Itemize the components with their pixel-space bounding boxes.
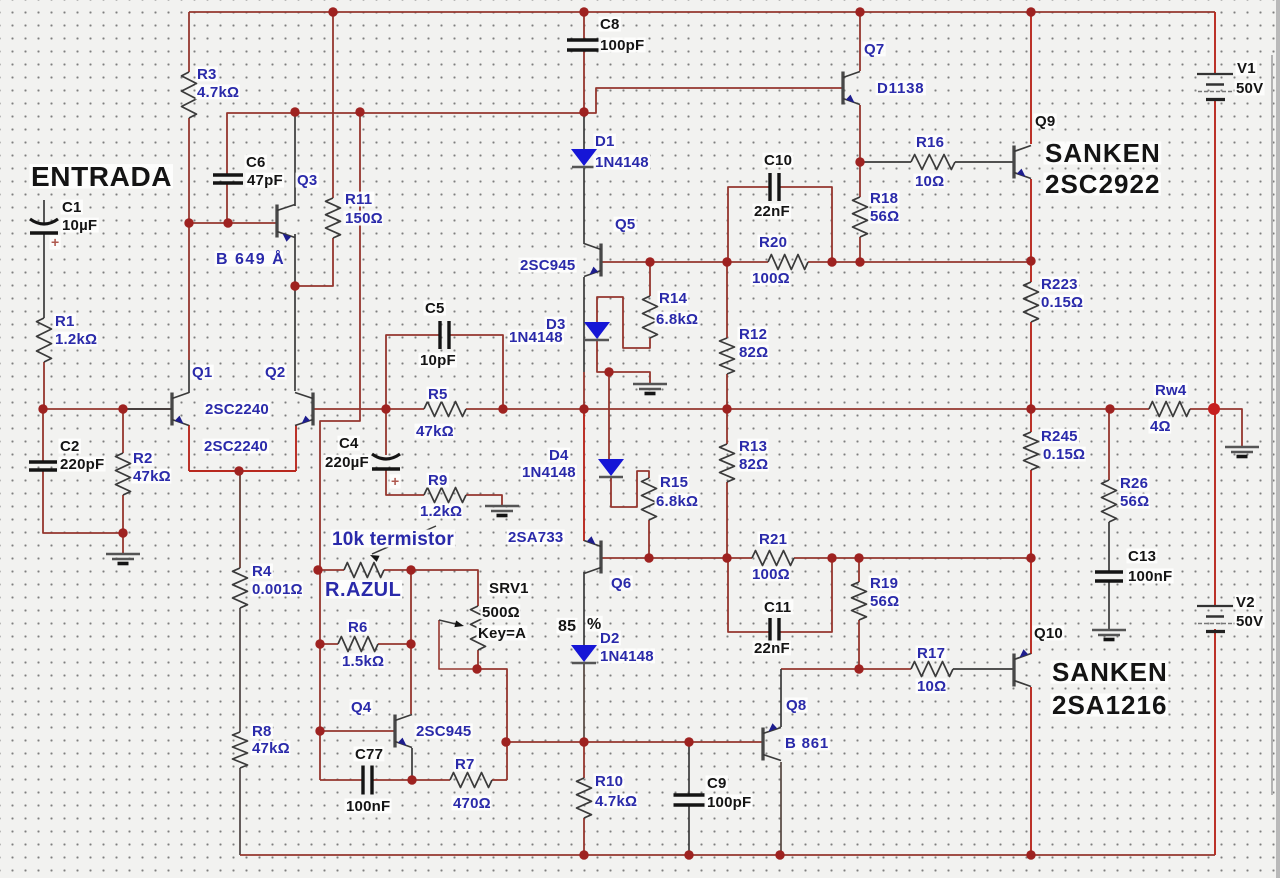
junction (860,12) xyxy=(855,7,864,16)
svg-text:2SA733: 2SA733 xyxy=(508,529,563,546)
wire R4 top stub xyxy=(239,471,241,568)
label SRV1 percent sign xyxy=(586,616,603,633)
svg-text:1.2kΩ: 1.2kΩ xyxy=(420,503,462,520)
label R13 ref xyxy=(738,438,769,455)
svg-text:2SC2240: 2SC2240 xyxy=(205,401,269,418)
wire R14 bottom to D3 anode xyxy=(597,297,650,348)
wire diff pair emitter bus xyxy=(189,470,296,472)
svg-text:C5: C5 xyxy=(425,300,445,317)
label R223 ref xyxy=(1040,276,1080,293)
junction (320,644) xyxy=(315,639,324,648)
svg-text:10Ω: 10Ω xyxy=(915,173,944,190)
svg-text:4.7kΩ: 4.7kΩ xyxy=(595,793,637,810)
wire C8 top stub xyxy=(583,12,585,40)
wire top +V rail xyxy=(189,11,1215,13)
junction (780,855) xyxy=(775,850,784,859)
label C10 value xyxy=(753,203,792,220)
wire D1 cathode to Q5 collector xyxy=(583,166,585,244)
wire C10 loop right xyxy=(779,187,832,262)
label R15 value xyxy=(655,493,699,510)
svg-text:Q1: Q1 xyxy=(192,364,212,381)
label R5 ref xyxy=(427,386,449,403)
svg-text:C10: C10 xyxy=(764,152,792,169)
wire R10 top stub xyxy=(583,742,585,778)
svg-text:56Ω: 56Ω xyxy=(870,208,899,225)
svg-text:R4: R4 xyxy=(252,563,272,580)
wire C2 top stub xyxy=(42,409,44,462)
svg-text:V2: V2 xyxy=(1236,594,1255,611)
svg-text:56Ω: 56Ω xyxy=(1120,493,1149,510)
wire C4 top stub xyxy=(385,409,387,455)
svg-text:R12: R12 xyxy=(739,326,767,343)
junction (295,286) xyxy=(290,281,299,290)
svg-text:47kΩ: 47kΩ xyxy=(252,740,290,757)
label R10 ref xyxy=(594,773,625,790)
wire R13 bottom stub xyxy=(726,482,728,558)
junction (123,409) xyxy=(118,404,127,413)
label Q8 ref xyxy=(785,697,808,714)
label C11 value xyxy=(753,640,792,657)
label Q6 value xyxy=(507,529,565,546)
wire Q1 collector up xyxy=(188,223,190,393)
svg-text:R.AZUL: R.AZUL xyxy=(325,579,401,601)
label R16 value xyxy=(914,173,945,190)
resistor R12 xyxy=(720,338,735,374)
svg-text:Q4: Q4 xyxy=(351,699,372,716)
label C5 value xyxy=(419,352,458,369)
label C8 value xyxy=(599,37,646,54)
resistor R4 xyxy=(233,568,248,608)
junction (333,12) xyxy=(328,7,337,16)
resistor R14 xyxy=(643,296,658,338)
svg-text:47kΩ: 47kΩ xyxy=(133,468,171,485)
svg-text:+: + xyxy=(51,234,59,250)
wire D1 anode stub xyxy=(583,112,585,149)
label Q10 part 2SA1216 xyxy=(1051,690,1168,720)
junction (584,12) xyxy=(579,7,588,16)
label C4 polarity xyxy=(390,473,401,489)
svg-text:R2: R2 xyxy=(133,450,153,467)
wire R4 to R8 xyxy=(239,608,241,732)
label C1 value xyxy=(61,217,99,234)
svg-text:Q6: Q6 xyxy=(611,575,631,592)
resistor R8 xyxy=(233,732,248,768)
label SRV1 ref xyxy=(488,580,531,597)
svg-text:R11: R11 xyxy=(345,191,372,208)
junction (832,262) xyxy=(827,257,836,266)
svg-text:C6: C6 xyxy=(246,154,266,171)
label R21 ref xyxy=(758,531,789,548)
svg-text:470Ω: 470Ω xyxy=(453,795,491,812)
resistor R16 xyxy=(911,155,955,170)
resistor R223 xyxy=(1024,282,1039,322)
svg-text:R8: R8 xyxy=(252,723,272,740)
svg-text:Q9: Q9 xyxy=(1035,113,1055,130)
svg-text:56Ω: 56Ω xyxy=(870,593,899,610)
resistor R11 xyxy=(326,198,341,238)
wire D2 cathode down xyxy=(583,663,585,742)
svg-text:C4: C4 xyxy=(339,435,359,452)
label C11 ref xyxy=(763,599,794,616)
label D2 value xyxy=(599,648,656,665)
svg-text:0.001Ω: 0.001Ω xyxy=(252,581,303,598)
label ENTRADA xyxy=(30,161,174,192)
svg-text:R18: R18 xyxy=(870,190,898,207)
wire C8 bottom to node xyxy=(583,50,585,112)
label SRV1 key xyxy=(477,625,528,642)
resistor R10 xyxy=(577,778,592,818)
label R15 ref xyxy=(659,474,690,491)
wire R17 right to Q10 base xyxy=(953,668,1014,670)
label C1 polarity xyxy=(50,234,61,250)
svg-text:82Ω: 82Ω xyxy=(739,344,768,361)
junction (318,570) xyxy=(313,565,322,574)
diode D4 xyxy=(598,459,624,477)
junction (411,644) xyxy=(406,639,415,648)
svg-text:Q2: Q2 xyxy=(265,364,285,381)
wire C2 bottom loop xyxy=(43,470,123,533)
svg-text:100pF: 100pF xyxy=(600,37,644,54)
wire R19 top stub xyxy=(858,558,860,582)
svg-text:R19: R19 xyxy=(870,575,898,592)
wire main row down to Q6 emitter xyxy=(583,409,585,541)
wire R18 top stub xyxy=(859,162,861,197)
label D4 ref xyxy=(548,447,570,464)
wire C9 top stub xyxy=(688,742,690,795)
label Q7 ref xyxy=(863,41,886,58)
label Rw4 value xyxy=(1149,418,1172,435)
label V2 value xyxy=(1235,613,1265,630)
label R4 ref xyxy=(251,563,273,580)
junction (1031,855) xyxy=(1026,850,1035,859)
svg-text:SRV1: SRV1 xyxy=(489,580,529,597)
wire Q1 emitter down xyxy=(188,425,190,471)
label SRV1 percent 85 xyxy=(557,618,578,635)
wire Q7 collector stub xyxy=(859,12,861,71)
capacitor C5 xyxy=(440,321,449,349)
svg-text:85: 85 xyxy=(558,618,576,635)
ground bias center xyxy=(633,384,667,394)
thermistor R.AZUL xyxy=(344,526,436,578)
wire main row to R223 xyxy=(1030,261,1032,282)
wire main row right of Rw4 xyxy=(1190,408,1214,410)
label R3 value xyxy=(196,84,240,101)
wire lower driver row (Q6 base) xyxy=(601,557,752,559)
label C77 ref xyxy=(354,746,385,763)
wire R3 bottom to Q3 base row xyxy=(188,118,190,223)
resistor Rw4 xyxy=(1149,402,1190,417)
wire C77 to R7 xyxy=(372,779,450,781)
transistor Q5 xyxy=(584,244,601,277)
label R10 value xyxy=(594,793,638,810)
wire Q3 emitter node down to Q2 collector xyxy=(294,234,296,391)
label Q3 ref xyxy=(296,172,319,189)
label C13 value xyxy=(1127,568,1174,585)
wire R7 right leg xyxy=(506,742,508,780)
label R4 value xyxy=(251,581,304,598)
wire C5 loop right xyxy=(449,335,503,409)
svg-text:1N4148: 1N4148 xyxy=(600,648,654,665)
junction (1031,558) xyxy=(1026,553,1035,562)
wire V1 top from rail xyxy=(1214,12,1216,74)
wire C5 loop left xyxy=(386,335,440,409)
resistor R245 xyxy=(1024,432,1039,470)
svg-text:R9: R9 xyxy=(428,472,448,489)
wire R245 bottom to lower row xyxy=(1030,470,1032,558)
capacitor C77 xyxy=(363,766,372,795)
label C9 ref xyxy=(706,775,728,792)
capacitor C6 xyxy=(213,175,243,183)
resistor R21 xyxy=(752,551,794,566)
wire main output row xyxy=(44,408,172,410)
svg-text:R17: R17 xyxy=(917,645,945,662)
svg-text:Q10: Q10 xyxy=(1034,625,1063,642)
wire vertical R6/thermistor/Q4-collector xyxy=(410,570,412,714)
label C6 value xyxy=(246,172,285,189)
wire SRV1 wiper xyxy=(439,620,477,669)
transistor Q3 xyxy=(277,205,295,242)
junction (1031,261) xyxy=(1026,256,1035,265)
wire C13 to ground xyxy=(1108,581,1110,630)
wire R6 row right xyxy=(378,643,411,645)
svg-text:47kΩ: 47kΩ xyxy=(416,423,454,440)
resistor R6 xyxy=(338,637,378,652)
resistor R19 xyxy=(852,582,867,620)
svg-text:2SA1216: 2SA1216 xyxy=(1052,690,1167,720)
svg-text:SANKEN: SANKEN xyxy=(1045,138,1161,168)
label R20 value xyxy=(751,270,791,287)
wire R18 bottom stub xyxy=(859,237,861,262)
svg-text:C8: C8 xyxy=(600,16,620,33)
resistor R2 xyxy=(116,453,131,495)
label thermistor note xyxy=(331,529,456,550)
junction (411,570) xyxy=(406,565,415,574)
junction (860,162) xyxy=(855,157,864,166)
svg-text:100nF: 100nF xyxy=(346,798,390,815)
wire Q4 emitter down xyxy=(411,748,413,780)
svg-text:R13: R13 xyxy=(739,438,767,455)
wire R10 bottom stub xyxy=(583,818,585,855)
label R5 value xyxy=(415,423,455,440)
capacitor C2 xyxy=(29,462,57,470)
capacitor C9 xyxy=(674,795,705,805)
wire R3 top stub xyxy=(188,12,190,72)
svg-text:C13: C13 xyxy=(1128,548,1156,565)
label Q4 ref xyxy=(350,699,373,716)
junction (1110,409) xyxy=(1105,404,1114,413)
label D1 value xyxy=(594,154,651,171)
label R18 value xyxy=(869,208,900,225)
junction (689,855) xyxy=(684,850,693,859)
label Q7 value xyxy=(876,80,926,97)
wire C6 bottom stub xyxy=(226,183,228,223)
resistor R26 xyxy=(1102,480,1117,522)
junction (1031,409) xyxy=(1026,404,1035,413)
label Q3 value B649A xyxy=(215,249,286,268)
wire upper driver row (Q5 base) xyxy=(600,261,768,263)
junction (43,409) xyxy=(38,404,47,413)
label Q9 part 2SC2922 xyxy=(1044,169,1161,199)
wire R245 top stub xyxy=(1030,409,1032,432)
label D3 value xyxy=(508,329,565,346)
svg-text:ENTRADA: ENTRADA xyxy=(31,161,172,192)
svg-text:2SC945: 2SC945 xyxy=(416,723,471,740)
svg-text:10Ω: 10Ω xyxy=(917,678,946,695)
transistor Q8 xyxy=(763,723,781,760)
label R26 value xyxy=(1119,493,1150,510)
label R16 ref xyxy=(915,134,946,151)
wire Q4 base xyxy=(320,730,394,732)
svg-text:47pF: 47pF xyxy=(247,172,283,189)
svg-text:B 861: B 861 xyxy=(785,735,829,752)
junction (123,533) xyxy=(118,528,127,537)
ground output xyxy=(1225,447,1259,457)
inner border line xyxy=(1271,55,1273,795)
label Q6 ref xyxy=(610,575,633,592)
label Q1 ref xyxy=(191,364,214,381)
junction (727,558) xyxy=(722,553,731,562)
wire D3 cathode to ground node xyxy=(597,340,650,384)
label R12 value xyxy=(738,344,769,361)
label R6 ref xyxy=(347,619,369,636)
label R9 value xyxy=(419,503,463,520)
wire lower bias row to Q8 base xyxy=(507,741,762,743)
label R7 value xyxy=(452,795,492,812)
svg-text:C2: C2 xyxy=(60,438,80,455)
svg-text:C1: C1 xyxy=(62,199,82,216)
wire SRV1 bottom to Q4 collector node xyxy=(477,669,507,742)
label Q10 name SANKEN xyxy=(1051,657,1169,687)
wire C11 loop left xyxy=(728,558,770,632)
wire R6 row left xyxy=(320,643,338,645)
window border right edge xyxy=(1276,0,1280,878)
resistor R13 xyxy=(720,444,735,482)
wire R26 to C13 xyxy=(1108,522,1110,572)
svg-text:R21: R21 xyxy=(759,531,787,548)
svg-text:1N4148: 1N4148 xyxy=(595,154,649,171)
label R8 value xyxy=(251,740,291,757)
wire SRV1 bottom stub xyxy=(477,650,479,669)
label R7 ref xyxy=(454,756,476,773)
wire C1 top lead xyxy=(43,200,45,223)
svg-text:R223: R223 xyxy=(1041,276,1078,293)
junction (859,558) xyxy=(854,553,863,562)
wire Q8 collector down to rail xyxy=(780,762,782,855)
junction (506,742) xyxy=(501,737,510,746)
wire R7 left stub xyxy=(492,779,507,781)
svg-text:10µF: 10µF xyxy=(62,217,97,234)
label SRV1 value xyxy=(481,604,521,621)
wire Q8 emitter up xyxy=(780,669,782,727)
junction (295,112) xyxy=(290,107,299,116)
label R8 ref xyxy=(251,723,273,740)
capacitor C1 xyxy=(30,219,58,233)
label R19 value xyxy=(869,593,900,610)
svg-text:Q3: Q3 xyxy=(297,172,317,189)
junction (727,262) xyxy=(722,257,731,266)
svg-text:R6: R6 xyxy=(348,619,368,636)
svg-text:1.5kΩ: 1.5kΩ xyxy=(342,653,384,670)
wire Q6 collector to D2 xyxy=(583,572,585,645)
ground R9 xyxy=(485,506,519,516)
label C4 value xyxy=(324,454,371,471)
svg-text:R245: R245 xyxy=(1041,428,1078,445)
wire Q9 collector from rail xyxy=(1030,12,1032,144)
svg-text:50V: 50V xyxy=(1236,80,1263,97)
wire bias loop left xyxy=(319,570,321,780)
capacitor C10 xyxy=(770,173,779,201)
junction (189,223) xyxy=(184,218,193,227)
junction (650,262) xyxy=(645,257,654,266)
label V1 value xyxy=(1235,80,1265,97)
wire V1 to main row xyxy=(1214,100,1216,409)
label R1 value xyxy=(54,331,98,348)
svg-text:10pF: 10pF xyxy=(420,352,456,369)
wire Q10 collector to bottom rail xyxy=(1030,687,1032,855)
transistor Q4 xyxy=(395,715,412,748)
label C2 ref xyxy=(59,438,81,455)
svg-text:R16: R16 xyxy=(916,134,944,151)
junction (859,669) xyxy=(854,664,863,673)
svg-text:4.7kΩ: 4.7kΩ xyxy=(197,84,239,101)
wire R17 row left xyxy=(781,668,911,670)
battery V1 xyxy=(1197,74,1233,100)
wire C11 loop right xyxy=(779,558,832,632)
wire thermistor row xyxy=(318,569,344,571)
wire R11 top stub from rail xyxy=(332,12,334,198)
capacitor C4 xyxy=(372,454,400,469)
label V2 ref xyxy=(1235,594,1257,611)
svg-text:R26: R26 xyxy=(1120,475,1148,492)
svg-text:R10: R10 xyxy=(595,773,623,790)
label R245 value xyxy=(1042,446,1086,463)
wire V2 to bottom rail xyxy=(1214,629,1216,855)
wire R15 bottom stub xyxy=(648,520,650,558)
svg-text:C11: C11 xyxy=(764,599,791,616)
svg-text:R7: R7 xyxy=(455,756,475,773)
junction (727,409) xyxy=(722,404,731,413)
label R19 ref xyxy=(869,575,900,592)
junction (649,558) xyxy=(644,553,653,562)
battery V2 xyxy=(1197,606,1233,632)
label D2 ref xyxy=(599,630,621,647)
svg-text:Q5: Q5 xyxy=(615,216,635,233)
wire main row to V2 xyxy=(1214,409,1216,606)
transistor Q9 xyxy=(1014,146,1031,179)
wire R12 bottom stub xyxy=(726,374,728,409)
label R17 ref xyxy=(916,645,947,662)
svg-text:6.8kΩ: 6.8kΩ xyxy=(656,311,698,328)
junction (860,262) xyxy=(855,257,864,266)
svg-text:B 649 Å: B 649 Å xyxy=(216,249,285,268)
wire R2 bottom stub xyxy=(122,495,124,533)
wire C9 bottom stub xyxy=(688,805,690,855)
wire R19 bottom stub xyxy=(858,620,860,669)
svg-text:Key=A: Key=A xyxy=(478,625,526,642)
svg-text:Q8: Q8 xyxy=(786,697,806,714)
resistor R9 xyxy=(424,488,466,503)
transistor Q1 xyxy=(123,393,189,426)
junction (584,855) xyxy=(579,850,588,859)
label Q4 value xyxy=(415,723,473,740)
wire D4 cathode to R15 xyxy=(611,471,649,507)
wire Q7 emitter down xyxy=(859,105,861,162)
label C8 ref xyxy=(599,16,621,33)
svg-text:1.2kΩ: 1.2kΩ xyxy=(55,331,97,348)
junction (609,372) xyxy=(604,367,613,376)
svg-text:2SC945: 2SC945 xyxy=(520,257,575,274)
label C2 value xyxy=(59,456,106,473)
